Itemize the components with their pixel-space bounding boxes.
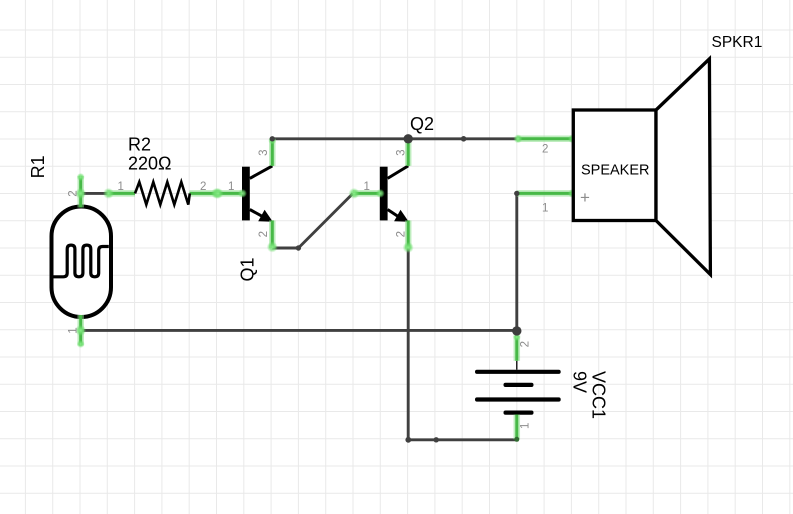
speaker SPKR1 pin2 (green) (514, 134, 578, 143)
wire Q1 emitter to junction (272, 247, 298, 250)
svg-text:3: 3 (396, 149, 408, 155)
battery VCC1 plate 1 (long +) (475, 370, 561, 374)
junction dot Q1 collector (270, 136, 275, 141)
transistor Q2 emitter line (388, 210, 400, 218)
speaker SPKR1 body rect (573, 110, 656, 221)
wire diagonal junction to Q2 base (298, 193, 353, 248)
battery pin1 (green, bottom) (514, 415, 521, 440)
svg-text:1: 1 (364, 181, 370, 193)
svg-text:2: 2 (542, 144, 548, 156)
battery VCC1 plate 4 (short -) (504, 411, 534, 415)
wire ground R1 pin1 to battery (81, 329, 517, 332)
wire top bus Q1 collector to speaker (272, 137, 517, 140)
junction dot bottom mid (434, 437, 439, 442)
wire Q2 emitter down (407, 249, 410, 440)
photoresistor R1 meander track (54, 245, 109, 277)
wire bottom to battery pin1 (408, 438, 517, 441)
R1 pin 1 (bottom, green) (75, 315, 86, 348)
svg-text:1: 1 (520, 423, 532, 429)
transistor Q1 emitter line (250, 210, 264, 218)
transistor Q1 base bar (242, 167, 250, 221)
svg-text:1: 1 (118, 181, 124, 193)
transistor Q2 base bar (380, 167, 388, 221)
speaker SPKR1 horn (656, 59, 710, 275)
svg-text:1: 1 (542, 203, 548, 215)
junction dot Q2 collector (large) (404, 134, 413, 143)
junction dot speaker pin1 node (514, 191, 519, 196)
battery pin2 (green, top) (513, 333, 521, 361)
svg-text:SPKR1: SPKR1 (712, 34, 763, 51)
R1 pin 2 (top, green) (75, 173, 86, 208)
svg-text:SPEAKER: SPEAKER (581, 163, 650, 179)
transistor Q1 collector line (250, 166, 272, 179)
svg-text:+: + (580, 188, 590, 207)
Q2 base pin (green) (349, 188, 385, 199)
svg-text:R1: R1 (28, 155, 48, 178)
transistor Q2 collector line (388, 166, 409, 179)
battery VCC1 plate 2 (short) (504, 383, 534, 387)
svg-text:R2: R2 (128, 135, 151, 155)
svg-text:2: 2 (200, 181, 206, 193)
Q1 collector pin (green) (268, 137, 276, 166)
battery pin1 terminal dot (514, 437, 519, 442)
photoresistor R1 body (52, 207, 112, 318)
junction dot bottom corner (405, 437, 411, 443)
svg-text:2: 2 (67, 190, 79, 196)
battery lead top thin (516, 361, 518, 370)
svg-text:1: 1 (228, 181, 234, 193)
svg-text:2: 2 (396, 231, 408, 237)
resistor R2 pin2 (green) (190, 188, 223, 199)
junction dot emitter node (296, 245, 301, 250)
svg-text:2: 2 (258, 231, 270, 237)
svg-text:Q1: Q1 (238, 257, 258, 281)
svg-text:1: 1 (67, 327, 79, 333)
junction dot battery top (large) (512, 326, 521, 335)
Q1 base pin (green) (213, 188, 248, 199)
speaker SPKR1 pin1 (green) (517, 189, 577, 198)
transistor Q2 emitter arrowhead (394, 210, 409, 222)
svg-text:2: 2 (520, 341, 532, 347)
junction dot top bus (461, 136, 467, 142)
battery VCC1 plate 3 (long) (475, 397, 561, 401)
resistor R2 zigzag (135, 182, 190, 205)
Q2 collector pin (green) (405, 139, 412, 166)
Q1 emitter pin (green) (267, 220, 278, 252)
wire R1 pin2 to R2 pin1 (81, 192, 108, 195)
svg-text:3: 3 (258, 149, 270, 155)
transistor Q1 emitter arrowhead (258, 210, 273, 222)
svg-text:220Ω: 220Ω (128, 154, 172, 174)
Q2 emitter pin (green) (403, 220, 414, 253)
svg-text:Q2: Q2 (410, 114, 434, 134)
resistor R2 pin1 (green) (103, 188, 135, 199)
wire speaker pin1 down to battery pin2 node (515, 193, 518, 330)
